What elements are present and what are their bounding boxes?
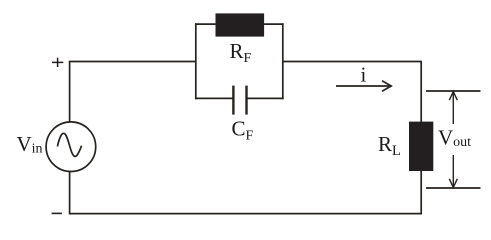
wire: bottom horizontal xyxy=(69,213,422,215)
wire: top horizontal from box to right vertical xyxy=(282,61,421,63)
wire: top horizontal from corner to parallel box xyxy=(69,61,196,63)
V_out top tick xyxy=(426,90,481,92)
minus sign xyxy=(52,212,62,214)
plus sign xyxy=(52,58,63,67)
wire: capacitor branch right lead xyxy=(247,97,284,99)
source V_in xyxy=(46,122,96,172)
wire: source bottom to bottom-left corner xyxy=(69,172,71,214)
resistor R_F xyxy=(216,13,265,36)
wire: parallel box left vertical xyxy=(195,23,197,99)
V_out arrow down xyxy=(449,155,457,188)
resistor R_L xyxy=(409,122,433,171)
current arrow i xyxy=(336,81,391,91)
V_out bottom tick xyxy=(426,187,481,189)
wire: parallel box right vertical xyxy=(282,23,284,99)
capacitor C_F plates xyxy=(233,86,246,115)
wire: right vertical xyxy=(420,61,422,215)
wire: resistor branch right lead xyxy=(263,23,284,25)
wire: source top to top-left corner xyxy=(69,62,71,123)
V_out arrow up xyxy=(449,92,457,125)
svg-text:i: i xyxy=(361,62,367,86)
wire: resistor branch left lead xyxy=(195,23,216,25)
wire: capacitor branch left lead xyxy=(195,97,233,99)
